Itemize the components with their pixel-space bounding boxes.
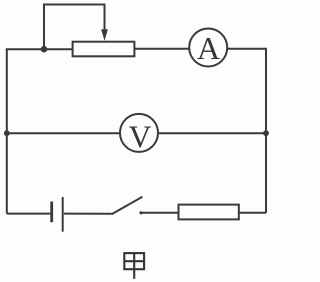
junction node left (voltmeter branch) <box>4 130 10 136</box>
switch S1 blade <box>112 197 143 214</box>
wire voltmeter right branch <box>158 132 266 134</box>
wire ammeter to right corner <box>227 48 266 50</box>
rheostat R1 body <box>73 42 135 57</box>
voltmeter U2 circle <box>120 114 158 152</box>
wire resistor to bottom-right corner <box>239 212 266 214</box>
svg-text:A: A <box>197 30 220 66</box>
wire voltmeter left branch <box>7 132 120 134</box>
label 甲 (drawn strokes) <box>124 253 144 279</box>
junction node right (voltmeter branch) <box>263 130 269 136</box>
wire switch contact to resistor <box>140 212 178 214</box>
battery positive plate (long) <box>62 197 64 232</box>
ammeter U1 circle <box>189 29 227 67</box>
resistor R2 body <box>179 205 239 220</box>
wire rheostat slider loop <box>44 5 105 49</box>
wire top-left horizontal to rheostat <box>6 48 73 50</box>
wire rheostat right to ammeter <box>134 48 188 50</box>
wire left vertical <box>6 49 8 213</box>
switch S1 contact dot <box>139 211 142 214</box>
wire battery to switch <box>64 213 112 215</box>
junction node at rheostat tap <box>41 46 48 53</box>
rheostat R1 arrowhead (slider) <box>101 29 108 41</box>
wire right vertical <box>265 48 267 213</box>
battery negative plate (short) <box>50 202 53 223</box>
svg-text:V: V <box>129 119 152 154</box>
wire bottom-left to battery <box>7 213 51 215</box>
